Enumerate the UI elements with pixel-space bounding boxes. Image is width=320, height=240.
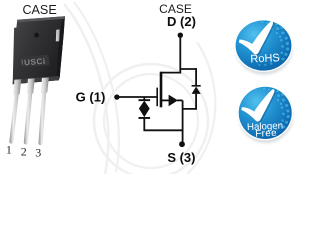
node S terminal dot — [179, 141, 185, 147]
watermark swoosh background — [64, 2, 215, 178]
mounting hole — [34, 32, 40, 38]
body diode triangle — [192, 87, 201, 94]
badge RoHS — [234, 19, 293, 75]
svg-text:Free: Free — [255, 128, 277, 140]
package TO-247 body — [13, 16, 65, 84]
wire gate lead — [117, 96, 157, 98]
zener D2 cathode bar — [139, 117, 151, 119]
pin 2 lead — [24, 78, 35, 144]
wire branch to body diode top — [180, 68, 196, 70]
pin 3 lead — [38, 78, 49, 146]
wire source stub arrow to S line — [177, 99, 183, 101]
badge RoHS checkmark — [239, 22, 275, 56]
wire source vertical to S — [182, 100, 184, 144]
metal slot window — [56, 29, 60, 41]
wire drain lead D down and left to channel — [161, 35, 180, 72]
svg-text:2: 2 — [21, 144, 27, 158]
wire body diode vertical top — [195, 68, 197, 86]
node G terminal dot — [114, 94, 119, 99]
USCi logo panel — [19, 55, 49, 68]
svg-text:RoHS: RoHS — [250, 52, 280, 65]
wire zener stack bottom to source rail — [144, 117, 182, 130]
package right side facet — [56, 16, 65, 80]
body diode cathode bar — [192, 85, 201, 87]
badge Halogen Free — [237, 86, 293, 144]
svg-text:CASE: CASE — [22, 3, 56, 17]
zener D1 triangle — [139, 101, 150, 109]
wire body diode vertical bottom and to source line — [183, 94, 197, 109]
mosfet gate plate — [156, 88, 158, 107]
wire source stub from channel — [161, 99, 169, 101]
wire gate to zener stack — [143, 97, 145, 100]
svg-text:S (3): S (3) — [167, 150, 195, 165]
svg-text:D (2): D (2) — [167, 14, 196, 29]
mosfet source arrow — [169, 95, 178, 107]
package bottom bevel — [13, 76, 59, 84]
mosfet channel line — [160, 72, 163, 108]
pin 1 lead — [9, 79, 21, 143]
svg-text:3: 3 — [35, 145, 41, 159]
svg-text:G (1): G (1) — [76, 90, 106, 105]
zener D1 cathode bar — [139, 99, 151, 101]
package top bevel — [17, 16, 65, 22]
badge Halogen Free checkmark — [242, 90, 277, 123]
svg-text:USCi: USCi — [24, 57, 46, 68]
zener D2 triangle — [139, 109, 150, 118]
node D terminal dot — [178, 33, 183, 38]
svg-text:1: 1 — [6, 142, 12, 156]
